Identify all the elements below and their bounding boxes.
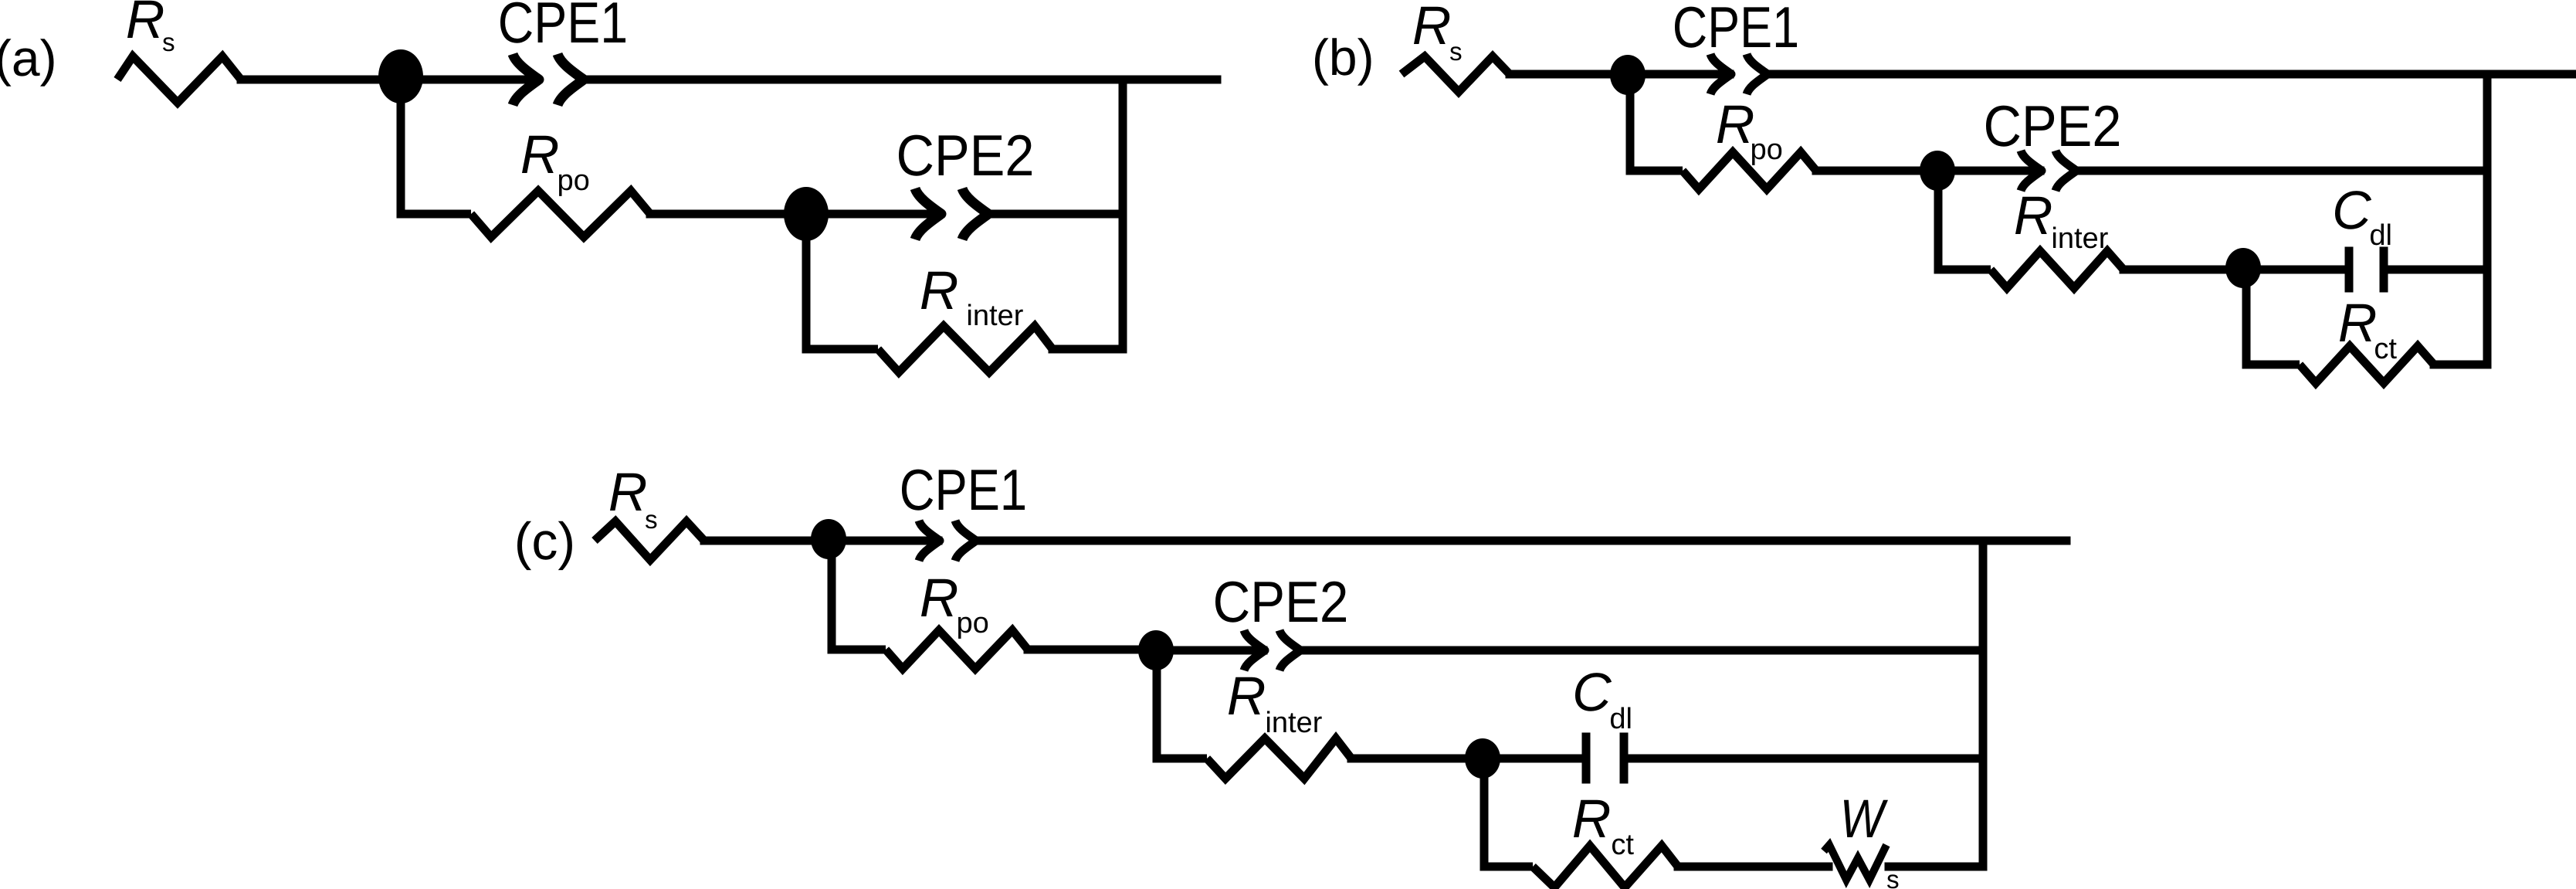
wire Rs to node B1 [1510, 70, 1628, 79]
label Rinter (b) [2015, 197, 2051, 234]
label CPE2 (a) [899, 135, 1032, 176]
node B1 (b) [1610, 55, 1646, 95]
circuit label (c) [517, 521, 572, 570]
node C3 (c) [1465, 738, 1500, 779]
resistor Rs (c) [595, 521, 704, 560]
wire node B3 to Cdl (b) [2243, 266, 2345, 274]
label Rpo (c) [921, 579, 957, 616]
wire Rs to node A1 [241, 76, 401, 84]
label Rpo (b) [1717, 106, 1753, 143]
CPE1 (a) symbol [513, 54, 539, 105]
wire CPE2 to bus (b) [2078, 167, 2487, 175]
wire CPE1 to right end (a) [585, 76, 1217, 84]
wire node B3 down to Rct branch (b) [2246, 269, 2300, 365]
wire node C2 to CPE2 (c) [1156, 646, 1263, 655]
wire node A2 down to Rinter branch (a) [806, 214, 878, 349]
capacitor Cdl (b) [2345, 251, 2354, 288]
CPE2 (b) symbol [2021, 151, 2042, 191]
wire CPE1 to right edge (b) [1769, 70, 2576, 79]
wire Rinter to node B3 [2124, 266, 2243, 274]
wire CPE2 to bus (a) [990, 210, 1123, 219]
label Rct (b) [2340, 304, 2375, 341]
wire node C1 to CPE1 (c) [829, 537, 938, 545]
resistor Rinter (a) [878, 326, 1052, 372]
node C2 (c) [1138, 630, 1174, 670]
CPE2 (c) symbol [1244, 630, 1265, 670]
label Rinter (a) [921, 272, 957, 309]
wire node A2 to CPE2 (a) [806, 210, 940, 219]
wire Rpo to node A2 [650, 210, 806, 219]
resistor Rct (b) [2300, 346, 2434, 383]
wire node C3 to Cdl (c) [1483, 755, 1582, 763]
node A1 (a) [378, 49, 423, 103]
resistor Rs (a) [117, 56, 241, 103]
label CPE2 (b) [1986, 106, 2119, 147]
label W (c) [1844, 800, 1888, 837]
resistor Rinter (c) [1207, 738, 1351, 779]
right bus (c) [1979, 541, 1988, 867]
node B2 (b) [1920, 151, 1955, 191]
label Rs (a) [127, 1, 163, 38]
circuit label (b) [1315, 38, 1371, 85]
wire Rct to Warburg W (c) [1678, 863, 1829, 871]
wire node C3 down to Rct branch (c) [1484, 758, 1533, 867]
label Rpo (a) [522, 136, 558, 173]
wire node B2 to CPE2 (b) [1937, 167, 2040, 175]
label CPE1 (b) [1675, 7, 1797, 48]
wire W to bus (c) [1889, 863, 1983, 871]
circuit label (a) [0, 39, 54, 86]
wire CPE2 to bus (c) [1302, 646, 1983, 655]
node B3 (b) [2225, 248, 2261, 288]
wire node C2 down to Rinter branch (c) [1157, 650, 1207, 758]
wire Cdl to bus (b) [2388, 266, 2487, 274]
CPE1 (c) symbol [919, 521, 940, 561]
node A2 (a) [784, 187, 829, 241]
wire Rinter to bus (a) [1052, 345, 1123, 354]
wire node A1 to CPE1 (a) [401, 76, 537, 84]
label CPE2 (c) [1215, 582, 1346, 623]
node C1 (c) [811, 519, 846, 559]
wire node B2 down to Rinter branch (b) [1938, 171, 1991, 270]
label Rct (c) [1574, 800, 1609, 837]
right bus (b) [2483, 74, 2492, 365]
resistor Rpo (b) [1683, 152, 1816, 189]
label CPE1 (a) [500, 2, 625, 43]
wire CPE1 to right end (c) [978, 537, 2066, 545]
capacitor Cdl (c) [1582, 737, 1591, 779]
right bus (a) [1119, 80, 1127, 349]
wire Rct to bus (b) [2434, 361, 2487, 369]
resistor Rpo (c) [886, 630, 1028, 669]
label Cdl (c) [1575, 673, 1612, 711]
resistor Rs (b) [1402, 56, 1510, 92]
wire node B1 to CPE1 (b) [1628, 70, 1730, 79]
CPE1 (b) symbol [1710, 54, 1731, 94]
label Rs (c) [610, 473, 646, 511]
label Cdl (b) [2335, 191, 2371, 229]
label CPE1 (c) [902, 470, 1025, 511]
resistor Rinter (b) [1991, 251, 2124, 288]
wire Rpo to node C2 [1028, 646, 1156, 654]
label Rinter (c) [1229, 677, 1264, 714]
Warburg element Ws (c) [1824, 845, 1886, 880]
wire node C1 down to Rpo branch (c) [832, 539, 886, 650]
resistor Rpo (a) [471, 191, 650, 237]
wire Cdl to bus (c) [1628, 755, 1983, 763]
label Rs (b) [1414, 7, 1449, 44]
wire Rs to node C1 [704, 537, 829, 545]
wire Rinter to node C3 [1351, 755, 1483, 763]
resistor Rct (c) [1533, 846, 1678, 887]
wire node A1 down to Rpo branch (a) [401, 78, 471, 214]
CPE2 (a) symbol [915, 188, 941, 239]
wire Rpo to node B2 [1816, 167, 1937, 175]
wire node B1 down to Rpo branch (b) [1630, 75, 1683, 171]
